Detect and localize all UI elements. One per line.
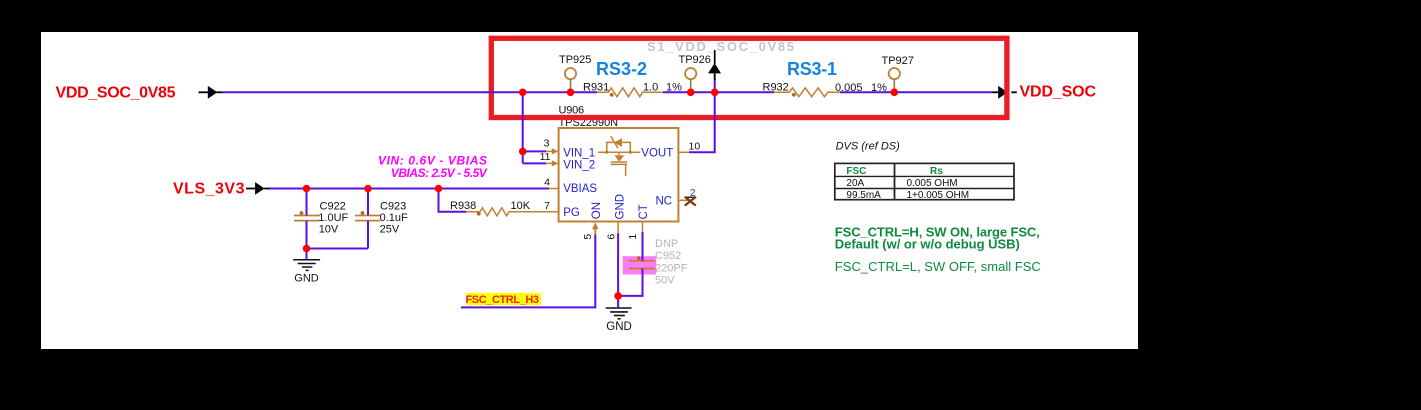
op IC U906 box [559, 128, 679, 222]
pin 5 ON [582, 202, 603, 240]
svg-text:5: 5 [582, 234, 594, 240]
wire GND pin6 [617, 233, 619, 308]
node C922 junction [303, 185, 311, 193]
resistor R932 [763, 82, 888, 97]
node C923 junction [364, 185, 372, 193]
svg-text:DNP: DNP [655, 238, 678, 250]
svg-text:1: 1 [627, 234, 639, 240]
svg-text:1.0UF: 1.0UF [318, 212, 348, 224]
wire C923 stubs [307, 189, 369, 249]
svg-text:RS3-1: RS3-1 [787, 59, 837, 79]
pin 4 VBIAS [544, 177, 597, 196]
svg-text:11: 11 [540, 151, 551, 163]
svg-text:10: 10 [689, 141, 701, 153]
power arrow up (S1_VDD_SOC_0V85) [708, 50, 721, 80]
capacitor C923 [355, 200, 408, 235]
net label FSC_CTRL_H3 [466, 293, 542, 306]
svg-text:99.5mA: 99.5mA [846, 190, 881, 201]
pin 11 VIN_2 [540, 151, 596, 172]
svg-text:25V: 25V [380, 224, 400, 236]
no-connect X on pin 2 [685, 197, 696, 206]
ground GND (decoupling caps) [293, 260, 320, 271]
svg-text:3: 3 [544, 138, 550, 150]
svg-text:GND: GND [294, 273, 319, 285]
capacitor C952 [629, 238, 688, 287]
svg-text:VBIAS: 2.5V - 5.5V: VBIAS: 2.5V - 5.5V [391, 166, 488, 180]
svg-text:C952: C952 [655, 250, 681, 262]
svg-text:TP925: TP925 [559, 54, 591, 66]
svg-text:0.1uF: 0.1uF [380, 212, 408, 224]
node TP927 junction [891, 89, 899, 97]
svg-text:VOUT: VOUT [641, 147, 673, 159]
svg-text:PG: PG [563, 207, 580, 219]
svg-text:0.005 OHM: 0.005 OHM [907, 178, 958, 189]
svg-text:Rs: Rs [930, 166, 943, 177]
svg-text:50V: 50V [655, 275, 675, 287]
resistor R931 [583, 81, 682, 96]
wire VLS_3V3 [270, 188, 549, 190]
pin 3 VIN_1 [544, 138, 596, 160]
svg-text:1.0: 1.0 [643, 82, 658, 94]
svg-text:TP927: TP927 [882, 55, 914, 67]
svg-text:6: 6 [606, 234, 618, 240]
test point TP927 [882, 55, 914, 92]
svg-text:Default (w/ or w/o debug USB): Default (w/ or w/o debug USB) [835, 237, 1020, 252]
capacitor C952 (DNP) highlight [623, 256, 657, 274]
wire VDD_SOC_0V85 main [222, 91, 992, 93]
node VIN_1 junction [519, 148, 527, 156]
pin 7 PG [544, 200, 580, 219]
node VOUT drop junction [711, 89, 719, 97]
svg-text:NC: NC [656, 196, 673, 208]
note FSC_CTRL=H [835, 224, 1040, 251]
svg-text:VBIAS: VBIAS [563, 183, 597, 195]
svg-text:7: 7 [544, 200, 550, 212]
svg-text:TP926: TP926 [679, 54, 711, 66]
wire cap ground drop [306, 249, 308, 260]
svg-text:10V: 10V [319, 224, 339, 236]
resistor R938 [450, 200, 545, 216]
svg-text:DVS (ref DS): DVS (ref DS) [836, 141, 901, 153]
wire CT to C952 and ground [618, 232, 642, 296]
port arrow VDD_SOC [992, 86, 1008, 99]
node VIN drop junction [519, 89, 527, 97]
wire FSC_CTRL_H3 [461, 235, 595, 308]
node R938 junction [435, 185, 443, 193]
node cap gnd junction [303, 245, 311, 253]
highlight box (red annotation) [491, 38, 1007, 117]
svg-text:RS3-2: RS3-2 [596, 59, 647, 79]
svg-text:CT: CT [638, 204, 650, 219]
svg-text:U906: U906 [559, 104, 585, 116]
port arrow VDD_SOC (tail) [1011, 91, 1017, 93]
svg-text:4: 4 [544, 177, 550, 189]
pin 10 VOUT [641, 141, 700, 160]
svg-text:VLS_3V3: VLS_3V3 [173, 180, 245, 197]
port arrow VDD_SOC_0V85 [199, 86, 224, 99]
ground GND (U906 pin 6) [606, 308, 632, 319]
wire VIN drop [523, 92, 546, 163]
svg-text:VDD_SOC: VDD_SOC [1020, 84, 1097, 101]
svg-text:VDD_SOC_0V85: VDD_SOC_0V85 [56, 84, 176, 101]
capacitor C922 [294, 200, 349, 235]
node TP925 junction [567, 89, 575, 97]
test point TP925 [559, 54, 591, 92]
table FSC/Rs [835, 163, 1014, 201]
svg-text:C922: C922 [320, 200, 346, 212]
pin 2 NC [656, 187, 696, 207]
svg-text:R938: R938 [450, 200, 476, 212]
wire C922 stubs [306, 189, 308, 249]
pass FET symbol inside U906 [598, 136, 640, 176]
junction node dots [303, 89, 898, 300]
svg-text:C923: C923 [380, 200, 406, 212]
svg-text:FSC_CTRL_H3: FSC_CTRL_H3 [466, 294, 540, 306]
test point TP926 [679, 54, 711, 92]
pin 6 GND [606, 194, 627, 240]
svg-text:VIN_1: VIN_1 [563, 147, 595, 159]
node gnd junction [614, 292, 622, 300]
svg-text:ON: ON [591, 202, 603, 219]
svg-text:FSC_CTRL=L, SW OFF, small FSC: FSC_CTRL=L, SW OFF, small FSC [835, 259, 1041, 274]
svg-text:VIN_2: VIN_2 [563, 160, 595, 172]
pin 1 CT [627, 204, 650, 239]
svg-text:GND: GND [615, 194, 627, 220]
svg-text:20A: 20A [846, 178, 864, 189]
svg-text:S1_VDD_SOC_0V85: S1_VDD_SOC_0V85 [647, 39, 794, 54]
wire to R938 [439, 189, 467, 212]
note VIN/VBIAS operating range [378, 153, 488, 179]
node TP926 junction [687, 89, 695, 97]
svg-text:GND: GND [606, 321, 632, 333]
port arrow VLS_3V3 [246, 182, 270, 195]
svg-text:1+0.005 OHM: 1+0.005 OHM [907, 190, 970, 201]
svg-text:10K: 10K [511, 200, 531, 212]
wire VOUT drop [689, 80, 715, 153]
svg-text:220PF: 220PF [655, 262, 688, 274]
svg-text:FSC: FSC [846, 166, 866, 177]
